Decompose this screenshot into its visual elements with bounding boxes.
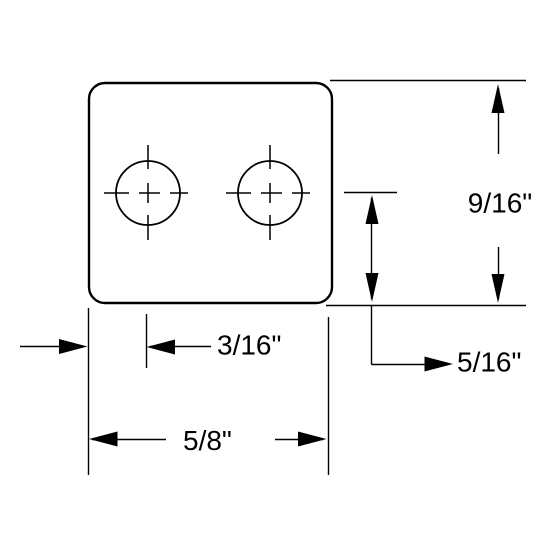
plate outline bbox=[89, 83, 332, 303]
dimension 9/16" line lower segment with down arrow bbox=[492, 247, 505, 303]
hole H1 (left) bbox=[116, 161, 180, 225]
extension line bottom (plate bottom, for 9/16" and 5/16") bbox=[326, 305, 526, 307]
extension line right plate edge (for 5/8") bbox=[328, 317, 330, 475]
svg-text:9/16": 9/16" bbox=[468, 188, 532, 219]
centerline H1 horizontal bbox=[104, 192, 188, 194]
centerline H2 vertical bbox=[269, 145, 271, 240]
centerline H1 vertical bbox=[147, 145, 149, 240]
dimension 3/16" arrow pointing left with shaft bbox=[147, 340, 212, 355]
centerline H2 horizontal bbox=[226, 192, 310, 194]
extension line hole center (for 5/16") bbox=[344, 192, 397, 194]
extension line top (plate top, for 9/16") bbox=[330, 80, 526, 82]
extension line left hole center (for 3/16") bbox=[146, 314, 148, 368]
leader 5/16" bbox=[372, 305, 454, 372]
dimension 9/16" line upper segment with up arrow bbox=[492, 84, 505, 154]
extension line left plate edge (for 3/16" and 5/8") bbox=[88, 308, 90, 475]
svg-text:5/8": 5/8" bbox=[183, 425, 232, 456]
svg-text:5/16": 5/16" bbox=[457, 347, 521, 378]
dimension 5/8" left arrow bbox=[89, 432, 166, 447]
hole H2 (right) bbox=[238, 161, 302, 225]
dimension 5/16" line with up and down arrows bbox=[366, 195, 379, 302]
dimension 5/8" right arrow bbox=[275, 432, 327, 447]
dimension 3/16" outside arrow pointing right bbox=[20, 339, 88, 354]
svg-text:3/16": 3/16" bbox=[217, 330, 281, 361]
